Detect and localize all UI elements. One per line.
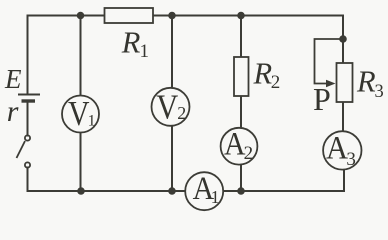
svg-text:A: A — [224, 126, 246, 162]
svg-text:1: 1 — [140, 41, 150, 62]
resistor R1 — [105, 8, 154, 23]
svg-text:r: r — [7, 95, 19, 128]
svg-text:2: 2 — [271, 72, 281, 93]
svg-text:3: 3 — [375, 82, 384, 102]
node bottom V1 — [77, 187, 85, 195]
svg-text:1: 1 — [88, 113, 96, 130]
voltmeter V1 — [62, 94, 99, 133]
wire R3 branch — [342, 39, 344, 63]
wire battery to switch — [27, 102, 29, 136]
svg-text:P: P — [313, 81, 331, 117]
svg-text:V: V — [156, 87, 178, 126]
svg-text:1: 1 — [211, 187, 220, 207]
wire switch to bottom bus — [27, 168, 29, 192]
ammeter A2 — [221, 126, 258, 164]
switch S — [17, 135, 31, 167]
svg-text:R: R — [121, 26, 141, 60]
battery E — [18, 95, 40, 102]
svg-text:A: A — [326, 130, 348, 166]
svg-text:E: E — [4, 64, 22, 94]
wire bottom bus right of A1 — [223, 170, 345, 192]
voltmeter V2 — [152, 87, 190, 126]
ammeter A3 — [323, 130, 361, 170]
node bottom V2 — [168, 187, 176, 195]
wire bottom bus left of A1 — [28, 190, 186, 192]
node top V1 — [77, 12, 85, 20]
node bottom A2 — [237, 187, 245, 195]
rheostat R3 — [337, 63, 353, 102]
svg-text:2: 2 — [177, 103, 186, 123]
wire top bus — [28, 16, 344, 94]
ammeter A1 — [185, 171, 223, 210]
svg-text:R: R — [253, 57, 273, 91]
svg-text:2: 2 — [244, 143, 254, 164]
resistor R2 — [234, 57, 249, 96]
svg-text:V: V — [68, 94, 90, 133]
wire R2 branch — [240, 16, 242, 58]
node R3 wiper top — [339, 35, 347, 43]
svg-text:R: R — [356, 64, 376, 98]
wire V1 branch — [80, 16, 82, 96]
node top R2 — [237, 12, 245, 20]
wiper P wire and arrow — [315, 39, 344, 87]
svg-text:3: 3 — [346, 149, 356, 170]
node top V2 — [168, 12, 176, 20]
wire V2 branch — [171, 16, 173, 89]
